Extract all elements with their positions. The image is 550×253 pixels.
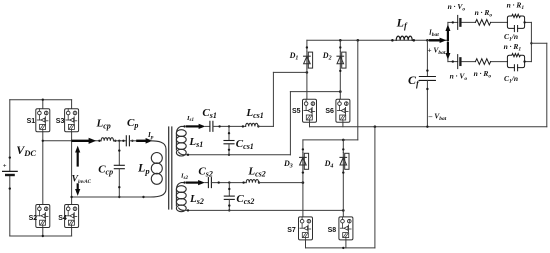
switch S6 (325, 99, 350, 122)
svg-text:S1: S1 (27, 118, 36, 125)
svg-text:C1/n: C1/n (504, 32, 518, 43)
arrow Ibat (428, 29, 446, 43)
resistor top nRo (475, 8, 493, 25)
wire top branch (448, 21, 532, 23)
wire bottom branch (448, 60, 532, 62)
svg-text:S3: S3 (56, 118, 65, 125)
switch S1 (27, 109, 50, 132)
inductor Lcs2 (246, 166, 266, 184)
battery cell top nVo (448, 2, 466, 29)
wire battery right join (530, 22, 547, 126)
battery cell bottom nVo (450, 55, 468, 82)
transformer core (169, 127, 172, 209)
svg-text:n · R1: n · R1 (504, 42, 522, 53)
wire inverter output A (42, 140, 100, 142)
wire negative rail (310, 125, 547, 128)
arrow inverter current (73, 138, 97, 144)
wire battery node (447, 22, 449, 61)
capacitor Cf (408, 40, 435, 128)
svg-text:S6: S6 (325, 108, 334, 115)
wire sec1 top (213, 125, 246, 127)
arrow Ip (137, 131, 153, 144)
RC block top nR1 C1/n (504, 1, 525, 43)
wire sec1 to rectifier1 left (258, 71, 308, 126)
RC block bottom nR1 C1/n (504, 42, 525, 85)
wire node A1 (114, 140, 127, 142)
svg-text:Ls2: Ls2 (189, 193, 204, 206)
svg-text:VinvAC: VinvAC (72, 174, 92, 185)
wire S5 bottom (309, 122, 311, 126)
switch S3 (56, 109, 79, 132)
resistor bottom nRo (474, 59, 492, 80)
svg-text:Ibat: Ibat (428, 29, 439, 39)
switch S2 (29, 205, 50, 228)
diode D1 (289, 40, 313, 100)
svg-text:– Vbat: – Vbat (428, 112, 447, 123)
svg-text:n · Vo: n · Vo (450, 71, 468, 82)
V_invAC voltage marker (72, 146, 92, 196)
svg-text:Is2: Is2 (180, 172, 188, 180)
arrow Is2 (180, 172, 205, 185)
svg-text:n · Ro: n · Ro (475, 8, 493, 19)
diode D3 (283, 140, 309, 217)
svg-text:Lcp: Lcp (96, 118, 111, 131)
svg-text:Cp: Cp (127, 117, 138, 130)
inductor Lcs1 (245, 107, 263, 127)
svg-text:n · R1: n · R1 (507, 1, 525, 12)
capacitor Cs1 (202, 107, 216, 131)
svg-text:D1: D1 (289, 51, 299, 62)
svg-text:S5: S5 (292, 108, 301, 115)
svg-text:Ls1: Ls1 (188, 136, 203, 149)
capacitor Cs2 (198, 165, 212, 187)
wire rectifier top rail (307, 39, 448, 42)
svg-text:D4: D4 (324, 159, 334, 170)
inductor Lf (391, 15, 415, 41)
secondary winding Ls2 (176, 183, 203, 212)
capacitor Ccp (98, 141, 124, 198)
wire rectifier2 bottom rail (306, 127, 375, 249)
inductor Lcp (96, 118, 117, 142)
svg-text:S7: S7 (287, 227, 296, 234)
svg-text:+: + (3, 163, 7, 170)
svg-text:+ Vbat: + Vbat (427, 45, 446, 56)
secondary winding Ls1 (176, 126, 203, 156)
wire bottom rail (10, 235, 72, 237)
wire leg B (71, 100, 73, 236)
wire Cp to Lp (129, 140, 140, 142)
transformer primary Lp (137, 141, 166, 197)
svg-text:Ccs2: Ccs2 (236, 193, 254, 206)
svg-text:Lcs2: Lcs2 (247, 166, 265, 179)
svg-text:S8: S8 (328, 227, 337, 234)
svg-text:n · Vo: n · Vo (448, 2, 466, 13)
wire leg A (42, 99, 44, 238)
svg-text:n · Ro: n · Ro (474, 69, 492, 80)
diode D2 (322, 40, 346, 100)
svg-text:Lp: Lp (137, 161, 150, 176)
svg-text:C1/n: C1/n (504, 74, 518, 85)
wire sec2 to rectifier2 left (259, 181, 304, 184)
wire sec2 bottom to rectifier2 right (184, 209, 345, 212)
svg-text:Is1: Is1 (186, 115, 194, 123)
wire top rail (10, 99, 72, 101)
svg-text:S4: S4 (58, 215, 67, 222)
svg-text:S2: S2 (29, 215, 38, 222)
svg-text:Cs2: Cs2 (198, 165, 212, 178)
svg-text:D3: D3 (283, 159, 293, 170)
diode D4 (324, 140, 349, 217)
svg-text:Ccs1: Ccs1 (236, 138, 254, 151)
arrow Is1 (183, 115, 205, 129)
svg-text:D2: D2 (322, 51, 332, 62)
switch S7 (287, 217, 312, 240)
battery VDC (3, 143, 37, 190)
wire rectifier2 top link (303, 40, 358, 141)
switch S8 (328, 217, 353, 240)
wire S6 bottom (342, 122, 344, 126)
wire left DC rail (9, 100, 11, 236)
svg-text:Ccp: Ccp (98, 163, 113, 176)
switch S4 (58, 205, 78, 228)
wire sec2 top (211, 181, 246, 183)
svg-text:Cf: Cf (408, 73, 420, 88)
arrow node up (445, 24, 450, 40)
svg-text:Lf: Lf (396, 15, 408, 30)
switch S5 (292, 99, 317, 122)
svg-text:VDC: VDC (16, 143, 36, 158)
svg-text:Cs1: Cs1 (202, 107, 216, 120)
wire inverter output B (70, 196, 144, 198)
capacitor Ccs2 (224, 183, 254, 212)
capacitor Cp (126, 117, 138, 146)
arrow node down (445, 43, 450, 60)
svg-text:Lcs1: Lcs1 (245, 107, 263, 120)
svg-text:Ip: Ip (147, 131, 154, 141)
capacitor Ccs1 (224, 126, 254, 156)
wire sec1 bottom to rectifier1 right (184, 90, 342, 156)
